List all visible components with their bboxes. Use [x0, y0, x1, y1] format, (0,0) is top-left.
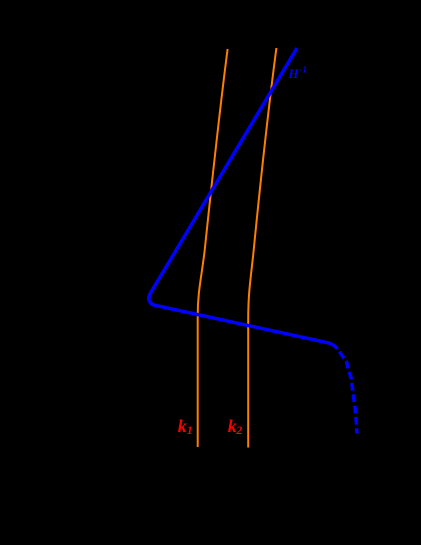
svg-text:H: H: [288, 67, 300, 81]
curve k2 (comoving mode 2, orange): [248, 48, 276, 448]
svg-text:k: k: [178, 416, 187, 436]
svg-text:2: 2: [235, 423, 242, 437]
svg-text:1: 1: [187, 423, 193, 437]
Hubble radius H^-1 curve, dashed part (blue): [337, 349, 356, 434]
svg-text:-1: -1: [300, 65, 308, 75]
Hubble radius H^-1 curve, solid part (blue): [149, 48, 338, 349]
curve k1 (comoving mode 1, orange): [198, 49, 228, 447]
